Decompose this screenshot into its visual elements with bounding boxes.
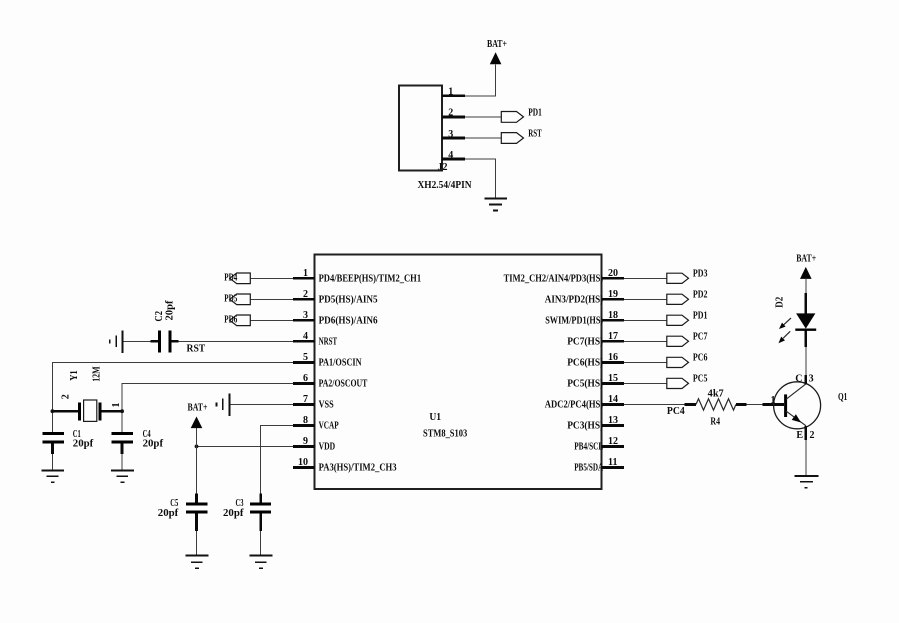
svg-text:16: 16: [608, 352, 618, 363]
node crystal left (junction): [51, 409, 55, 413]
wire Q1 collector to LED: [805, 331, 807, 385]
svg-text:NRST: NRST: [319, 336, 338, 347]
svg-text:PD4: PD4: [224, 273, 237, 284]
svg-text:PD2: PD2: [693, 290, 708, 301]
svg-text:20: 20: [608, 268, 618, 279]
U1 pin 15: [601, 382, 624, 385]
transistor Q1: [774, 382, 821, 429]
svg-text:20pf: 20pf: [223, 508, 244, 519]
svg-text:PC5: PC5: [693, 374, 708, 385]
U1 pin 20: [601, 277, 624, 280]
svg-text:4: 4: [303, 331, 308, 342]
svg-text:PB5/SDA: PB5/SDA: [574, 462, 604, 473]
wire pin 20 to PD3 flag: [624, 277, 667, 279]
wire PD6 to pin 3: [250, 319, 293, 321]
svg-text:PC6: PC6: [693, 353, 708, 364]
wire pin 15 to PC5 flag: [624, 382, 667, 384]
U1 pin 6: [293, 382, 314, 385]
svg-text:3: 3: [448, 129, 453, 140]
svg-text:J2: J2: [438, 162, 448, 173]
port flag PD5: [230, 294, 251, 305]
wire pin 8 VCAP to C3: [261, 425, 293, 493]
wire LED to BAT+: [805, 279, 807, 314]
wire C2 to ground: [123, 340, 151, 342]
wire pin 7 VSS to ground: [229, 403, 293, 405]
wire C3 to ground: [260, 531, 262, 556]
crystal Y1: [53, 410, 78, 413]
capacitor C1: [43, 432, 65, 435]
port flag PD1 (top): [501, 112, 523, 123]
wire VDD junction down to C5: [196, 446, 198, 493]
U1 pin 7: [293, 403, 314, 406]
capacitor C2: [150, 340, 158, 343]
ground (below J2): [484, 197, 507, 199]
svg-text:Q1: Q1: [838, 392, 847, 403]
svg-text:VCAP: VCAP: [319, 420, 339, 431]
svg-text:8: 8: [303, 415, 308, 426]
port flag PD4: [230, 273, 251, 284]
svg-text:PD3: PD3: [693, 269, 708, 280]
svg-text:RST: RST: [187, 344, 206, 355]
svg-text:10: 10: [298, 457, 308, 468]
U1 pin 4: [293, 340, 314, 343]
svg-text:AIN3/PD2(HS): AIN3/PD2(HS): [545, 294, 603, 305]
J2 pin 2: [442, 116, 465, 119]
svg-text:11: 11: [608, 457, 617, 468]
LED D2: [796, 313, 815, 328]
svg-text:13: 13: [608, 415, 618, 426]
J2 pin 3: [442, 137, 465, 140]
wire R4 to Q1 base: [747, 403, 763, 405]
svg-text:2: 2: [448, 108, 453, 119]
ground (below C4): [111, 470, 134, 472]
svg-text:BAT+: BAT+: [796, 254, 816, 265]
svg-text:PD5(HS)/AIN5: PD5(HS)/AIN5: [319, 294, 378, 305]
svg-text:C: C: [795, 374, 802, 385]
ground (below C1): [41, 470, 64, 472]
svg-text:PC7(HS): PC7(HS): [567, 336, 603, 347]
svg-text:R4: R4: [710, 417, 720, 428]
ground (sideways, pin 7): [228, 394, 230, 417]
svg-text:PD6: PD6: [224, 315, 237, 326]
svg-text:5: 5: [303, 352, 308, 363]
svg-text:PD6(HS)/AIN6: PD6(HS)/AIN6: [319, 315, 378, 326]
U1 pin 5: [293, 361, 314, 364]
svg-text:PC6(HS): PC6(HS): [567, 357, 603, 368]
svg-text:BAT+: BAT+: [487, 39, 507, 50]
svg-text:PA3(HS)/TIM2_CH3: PA3(HS)/TIM2_CH3: [319, 462, 397, 473]
U1 pin 10: [293, 466, 314, 469]
port flag RST (top): [501, 133, 523, 144]
wire pin 9 VDD to BAT+: [197, 445, 294, 447]
svg-text:12: 12: [608, 436, 618, 447]
capacitor C4: [111, 432, 133, 435]
D2 emission arrow 1: [784, 318, 791, 325]
port flag PD1 (right): [667, 315, 689, 325]
svg-text:PC5(HS): PC5(HS): [567, 378, 603, 389]
wire pin 6 to crystal right node: [122, 383, 293, 433]
power symbol BAT+ (top): [490, 52, 502, 64]
svg-text:VDD: VDD: [319, 441, 336, 452]
U1 pin 12: [601, 445, 624, 448]
svg-text:RST: RST: [528, 129, 542, 140]
wire pin 17 to PC7 flag: [624, 340, 667, 342]
svg-text:1: 1: [448, 87, 453, 98]
U1 pin 3: [293, 319, 314, 322]
capacitor C5: [195, 494, 198, 503]
svg-text:PC3(HS): PC3(HS): [567, 420, 603, 431]
svg-text:18: 18: [608, 310, 618, 321]
svg-text:2: 2: [60, 394, 71, 399]
svg-text:BAT+: BAT+: [188, 403, 208, 414]
wire Q1 emitter to ground: [805, 426, 807, 476]
J2 pin 1: [442, 94, 465, 97]
svg-text:D2: D2: [775, 297, 786, 308]
wire pin 5 to crystal left node: [52, 362, 293, 433]
svg-text:Y1: Y1: [69, 370, 80, 381]
svg-text:PC4: PC4: [667, 406, 685, 417]
connector J2 body: [399, 86, 442, 171]
svg-text:XH2.54/4PIN: XH2.54/4PIN: [418, 180, 473, 191]
svg-text:2: 2: [303, 289, 308, 300]
svg-text:E: E: [796, 430, 803, 441]
svg-text:VSS: VSS: [319, 399, 334, 410]
svg-text:PA1/OSCIN: PA1/OSCIN: [319, 357, 363, 368]
power symbol BAT+ (right): [800, 267, 812, 279]
svg-text:2: 2: [810, 430, 815, 441]
wire C1 to ground: [51, 454, 53, 470]
svg-text:20pf: 20pf: [73, 438, 94, 449]
svg-text:3: 3: [303, 310, 308, 321]
svg-text:PA2/OSCOUT: PA2/OSCOUT: [319, 378, 368, 389]
wire pin 14 PC4 net: [624, 403, 685, 405]
U1 pin 1: [293, 277, 314, 280]
svg-text:ADC2/PC4(HS): ADC2/PC4(HS): [545, 399, 603, 410]
svg-text:9: 9: [303, 436, 308, 447]
svg-text:PD4/BEEP(HS)/TIM2_CH1: PD4/BEEP(HS)/TIM2_CH1: [319, 273, 422, 284]
J2 pin 4: [442, 158, 465, 161]
U1 pin 19: [601, 298, 624, 301]
port flag PD2: [667, 294, 689, 304]
D2 emission arrow 2: [783, 331, 790, 338]
ground (below Q1): [795, 475, 819, 477]
wire pin4 to ground: [465, 159, 496, 198]
svg-text:17: 17: [608, 331, 618, 342]
U1 pin 17: [601, 340, 624, 343]
svg-text:15: 15: [608, 373, 618, 384]
svg-text:7: 7: [303, 394, 308, 405]
wire C4 to ground: [121, 454, 123, 470]
svg-text:PB4/SCL: PB4/SCL: [574, 441, 603, 452]
wire pin2: [465, 116, 502, 118]
U1 pin 13: [601, 424, 624, 427]
svg-text:STM8_S103: STM8_S103: [423, 429, 467, 440]
svg-text:3: 3: [809, 374, 814, 385]
svg-text:SWIM/PD1(HS): SWIM/PD1(HS): [545, 315, 603, 326]
svg-text:19: 19: [608, 289, 618, 300]
svg-text:TIM2_CH2/AIN4/PD3(HS): TIM2_CH2/AIN4/PD3(HS): [504, 273, 604, 284]
U1 pin 11: [601, 466, 624, 469]
svg-text:1: 1: [111, 403, 122, 408]
svg-text:C2: C2: [154, 311, 165, 322]
svg-text:20pf: 20pf: [165, 300, 176, 321]
wire C5 to ground: [196, 531, 198, 556]
svg-text:1: 1: [303, 268, 308, 279]
U1 pin 18: [601, 319, 624, 322]
node VDD junction: [195, 445, 199, 449]
svg-text:20pf: 20pf: [158, 508, 179, 519]
svg-text:PD5: PD5: [224, 294, 237, 305]
power symbol BAT+ (left): [196, 428, 198, 447]
svg-text:PD1: PD1: [693, 311, 708, 322]
resistor R4: [685, 403, 697, 406]
port flag PC5: [667, 378, 689, 388]
wire pin3: [465, 137, 502, 139]
ground (below C5): [186, 555, 209, 557]
svg-text:12M: 12M: [92, 366, 103, 382]
U1 pin 2: [293, 298, 314, 301]
wire RST net to pin 4: [178, 340, 293, 342]
U1 pin 14: [601, 403, 624, 406]
capacitor C3: [259, 494, 262, 503]
node crystal right (junction): [120, 409, 124, 413]
port flag PC7: [667, 336, 689, 346]
svg-text:6: 6: [303, 373, 308, 384]
port flag PD6: [230, 315, 251, 326]
wire pin 18 to PD1 flag: [624, 319, 667, 321]
svg-text:U1: U1: [429, 412, 441, 423]
svg-text:4: 4: [448, 150, 453, 161]
U1 pin 16: [601, 361, 624, 364]
svg-text:PC7: PC7: [693, 332, 708, 343]
wire PD4 to pin 1: [250, 277, 293, 279]
ground (below C3): [250, 555, 273, 557]
wire PD5 to pin 2: [250, 298, 293, 300]
port flag PC6: [667, 357, 689, 367]
svg-text:4k7: 4k7: [708, 388, 724, 399]
U1 pin 8: [293, 424, 314, 427]
svg-text:20pf: 20pf: [143, 438, 164, 449]
ground (sideways, left of C2): [122, 331, 124, 354]
wire pin1 to BAT+: [465, 64, 496, 96]
svg-text:14: 14: [608, 394, 618, 405]
port flag PD3: [667, 273, 689, 283]
svg-text:PD1: PD1: [528, 108, 542, 119]
wire pin 19 to PD2 flag: [624, 298, 667, 300]
U1 pin 9: [293, 445, 314, 448]
op-amp U1 body (MCU rectangle): [314, 255, 601, 490]
wire pin 16 to PC6 flag: [624, 361, 667, 363]
